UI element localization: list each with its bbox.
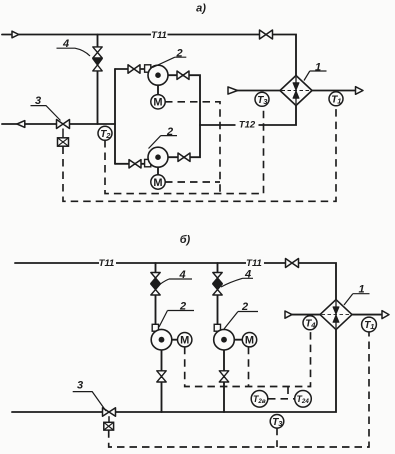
svg-text:Т1: Т1: [364, 320, 374, 331]
svg-text:2: 2: [166, 126, 173, 138]
svg-text:4: 4: [178, 269, 185, 281]
svg-text:4: 4: [62, 38, 69, 50]
svg-text:Т11: Т11: [99, 258, 115, 269]
svg-text:б): б): [180, 234, 191, 246]
svg-text:Т11: Т11: [246, 258, 262, 269]
svg-text:М: М: [180, 335, 189, 347]
svg-text:3: 3: [77, 380, 83, 392]
svg-text:Т12: Т12: [239, 120, 256, 131]
svg-text:Т4: Т4: [305, 318, 316, 329]
svg-text:1: 1: [358, 284, 364, 296]
svg-text:Т2: Т2: [100, 129, 111, 140]
svg-text:4: 4: [244, 269, 251, 281]
svg-text:М: М: [245, 335, 254, 347]
svg-text:3: 3: [35, 95, 41, 107]
svg-text:1: 1: [315, 62, 321, 74]
svg-text:2: 2: [179, 301, 186, 313]
svg-text:Т3: Т3: [257, 95, 268, 106]
svg-text:а): а): [196, 3, 206, 15]
svg-text:2: 2: [175, 48, 182, 60]
svg-text:2: 2: [241, 301, 248, 313]
svg-text:Т1: Т1: [331, 94, 341, 105]
svg-text:Т11: Т11: [151, 30, 167, 41]
svg-text:М: М: [153, 97, 162, 109]
svg-text:М: М: [153, 177, 162, 189]
svg-text:Т3: Т3: [272, 417, 283, 428]
